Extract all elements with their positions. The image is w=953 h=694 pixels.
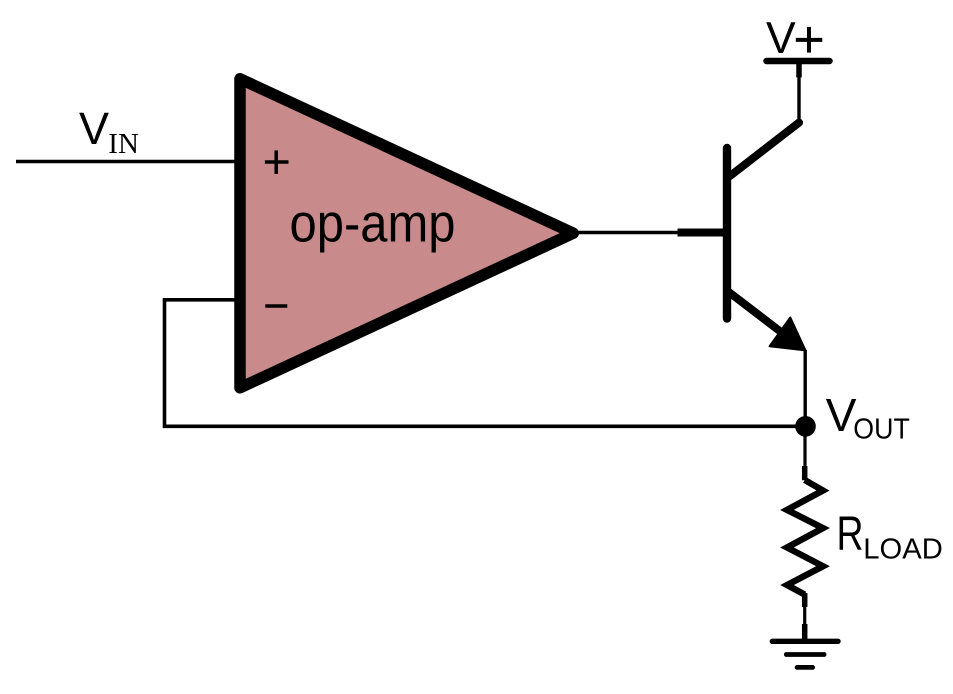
plus input label (265, 150, 289, 174)
collector stub (796, 63, 802, 77)
ground stub (802, 624, 808, 639)
transistor Q1 collector lead (730, 123, 799, 176)
ground bar 3 (797, 665, 813, 670)
transistor Q1 base bar (723, 148, 731, 319)
ground bar 2 (786, 652, 824, 657)
node VOUT junction dot (795, 416, 816, 437)
svg-text:V: V (79, 103, 109, 154)
base lead thick segment (678, 229, 725, 237)
svg-text:IN: IN (108, 128, 139, 160)
minus input label (265, 304, 287, 308)
label RLOAD (837, 508, 943, 566)
wire collector to V+ (797, 63, 800, 124)
transistor Q1 emitter lead (729, 292, 781, 332)
svg-text:V: V (826, 389, 857, 441)
svg-text:LOAD: LOAD (863, 534, 943, 566)
wire VIN input (16, 160, 237, 163)
op-amp U1 (240, 79, 573, 388)
resistor RLOAD zigzag (787, 480, 823, 595)
svg-text:op-amp: op-amp (290, 194, 456, 254)
transistor Q1 emitter arrow (770, 318, 806, 351)
wire emitter to VOUT node (804, 350, 807, 426)
feedback wire (165, 300, 806, 427)
label VIN (79, 103, 139, 160)
svg-text:OUT: OUT (853, 413, 910, 445)
svg-text:V: V (766, 14, 796, 63)
ground bar 1 (772, 639, 838, 644)
resistor top stub (802, 466, 808, 480)
label VOUT (826, 389, 910, 446)
svg-text:R: R (837, 508, 864, 561)
wire VOUT node to resistor (803, 436, 806, 467)
resistor bottom stub (802, 593, 808, 607)
wire op-amp output to base (573, 231, 678, 234)
V+ supply bar (767, 58, 830, 65)
wire resistor to ground (803, 607, 806, 624)
